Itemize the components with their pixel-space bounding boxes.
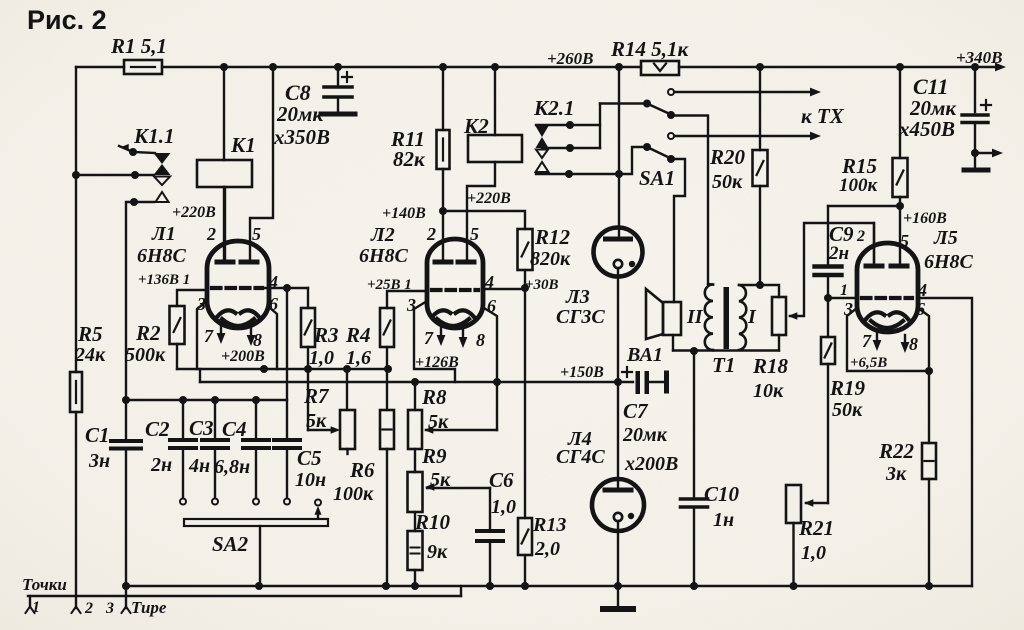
svg-text:II: II [686,306,704,328]
svg-text:2н: 2н [150,454,172,476]
svg-text:+200В: +200В [221,348,265,365]
svg-text:6Н8С: 6Н8С [137,245,187,267]
svg-text:R5: R5 [77,322,103,346]
svg-text:820к: 820к [530,248,571,270]
svg-text:2,0: 2,0 [534,538,560,560]
svg-text:8: 8 [253,330,262,350]
svg-text:3: 3 [196,294,206,314]
svg-text:7: 7 [424,328,434,348]
svg-text:6: 6 [487,296,496,316]
svg-text:5: 5 [252,224,261,244]
svg-text:С4: С4 [222,417,247,441]
svg-text:С2: С2 [145,417,170,441]
svg-text:82к: 82к [393,147,426,171]
svg-text:2н: 2н [828,243,849,264]
svg-text:5: 5 [900,231,909,251]
svg-text:50к: 50к [832,399,863,421]
svg-text:+220В: +220В [172,204,216,221]
svg-text:С3: С3 [189,416,214,440]
svg-text:Л5: Л5 [933,227,958,249]
svg-text:+150В: +150В [560,364,604,381]
svg-text:СГ4С: СГ4С [556,446,605,468]
svg-text:100к: 100к [333,483,374,505]
svg-text:СГ3С: СГ3С [556,306,605,328]
svg-text:+25В 1: +25В 1 [367,277,412,293]
svg-text:Т1: Т1 [712,353,735,377]
svg-text:R7: R7 [303,384,330,408]
svg-text:R14 5,1к: R14 5,1к [610,37,690,61]
svg-text:I: I [747,306,757,328]
svg-text:R2: R2 [135,321,161,345]
svg-text:2: 2 [84,600,93,617]
svg-text:R6: R6 [349,458,375,482]
svg-text:5к: 5к [306,410,327,432]
svg-text:3н: 3н [88,450,110,472]
svg-text:R22: R22 [878,439,915,463]
svg-text:4: 4 [484,272,494,292]
svg-text:1: 1 [32,599,40,616]
svg-text:R3: R3 [313,323,339,347]
svg-text:Л3: Л3 [565,286,590,308]
svg-text:10к: 10к [753,380,784,402]
svg-text:R13: R13 [532,514,566,536]
svg-text:9к: 9к [427,541,448,563]
svg-text:R19: R19 [829,376,866,400]
svg-text:20мк: 20мк [622,424,668,446]
svg-text:3: 3 [843,299,853,319]
svg-text:6Н8С: 6Н8С [359,245,409,267]
svg-text:R10: R10 [414,510,451,534]
svg-text:8: 8 [476,330,485,350]
svg-text:1,6: 1,6 [346,347,371,369]
svg-text:Рис. 2: Рис. 2 [27,5,107,35]
svg-text:+260В: +260В [547,49,594,68]
svg-text:4н: 4н [188,455,210,477]
svg-text:С7: С7 [623,399,649,423]
svg-text:R8: R8 [421,385,447,409]
svg-text:3: 3 [105,600,114,617]
svg-text:4: 4 [268,272,278,292]
svg-text:5к: 5к [430,469,451,491]
svg-text:х200В: х200В [624,453,678,475]
svg-text:1: 1 [840,282,848,299]
svg-text:Л1: Л1 [151,223,176,245]
svg-text:24к: 24к [74,344,106,366]
svg-text:К2: К2 [463,114,489,138]
svg-text:3: 3 [406,295,416,315]
svg-text:R9: R9 [421,444,447,468]
svg-text:20мк: 20мк [276,102,324,126]
svg-text:1,0: 1,0 [491,496,516,518]
svg-text:+136В 1: +136В 1 [138,272,190,288]
svg-text:5к: 5к [428,411,449,433]
svg-text:к ТХ: к ТХ [801,104,845,128]
svg-text:7: 7 [862,331,872,351]
svg-text:+30В: +30В [525,277,559,293]
svg-text:К1.1: К1.1 [133,124,175,148]
svg-text:6Н8С: 6Н8С [924,251,974,273]
svg-text:R21: R21 [798,516,834,540]
svg-text:2: 2 [206,224,216,244]
svg-text:6,8н: 6,8н [214,456,250,478]
svg-text:10н: 10н [295,469,326,491]
svg-text:+160В: +160В [903,210,947,227]
svg-text:1н: 1н [713,509,734,531]
svg-text:+6,5В: +6,5В [850,355,887,371]
svg-text:4: 4 [917,280,927,300]
svg-text:5: 5 [470,224,479,244]
svg-text:6: 6 [269,294,278,314]
svg-text:R20: R20 [709,145,746,169]
svg-text:2: 2 [426,224,436,244]
svg-text:+340В: +340В [956,48,1003,67]
svg-text:SA2: SA2 [212,532,249,556]
svg-text:х350В: х350В [273,125,330,149]
svg-text:С10: С10 [704,482,740,506]
svg-text:К2.1: К2.1 [533,96,575,120]
svg-text:ВА1: ВА1 [626,344,663,366]
svg-text:SA1: SA1 [639,166,675,190]
svg-text:Точки: Точки [22,575,67,594]
svg-text:Тире: Тире [131,598,167,617]
svg-text:3к: 3к [885,463,907,485]
svg-text:6: 6 [916,299,925,319]
svg-text:С5: С5 [297,446,322,470]
svg-text:500к: 500к [125,344,166,366]
svg-text:1,0: 1,0 [309,347,334,369]
svg-text:R1 5,1: R1 5,1 [110,34,167,58]
svg-text:х450В: х450В [898,117,955,141]
svg-text:R18: R18 [752,354,789,378]
svg-text:С6: С6 [489,468,514,492]
svg-text:С1: С1 [85,423,110,447]
svg-text:R12: R12 [534,225,571,249]
svg-text:100к: 100к [839,175,879,196]
svg-text:+140В: +140В [382,205,426,222]
svg-text:+220В: +220В [467,190,511,207]
svg-text:Л2: Л2 [370,224,395,246]
svg-text:8: 8 [909,334,918,354]
svg-text:К1: К1 [230,133,256,157]
svg-text:50к: 50к [712,171,743,193]
svg-text:1,0: 1,0 [801,542,826,564]
svg-text:+126В: +126В [415,354,459,371]
svg-text:2: 2 [856,228,865,245]
svg-text:R4: R4 [345,323,371,347]
svg-text:7: 7 [204,326,214,346]
